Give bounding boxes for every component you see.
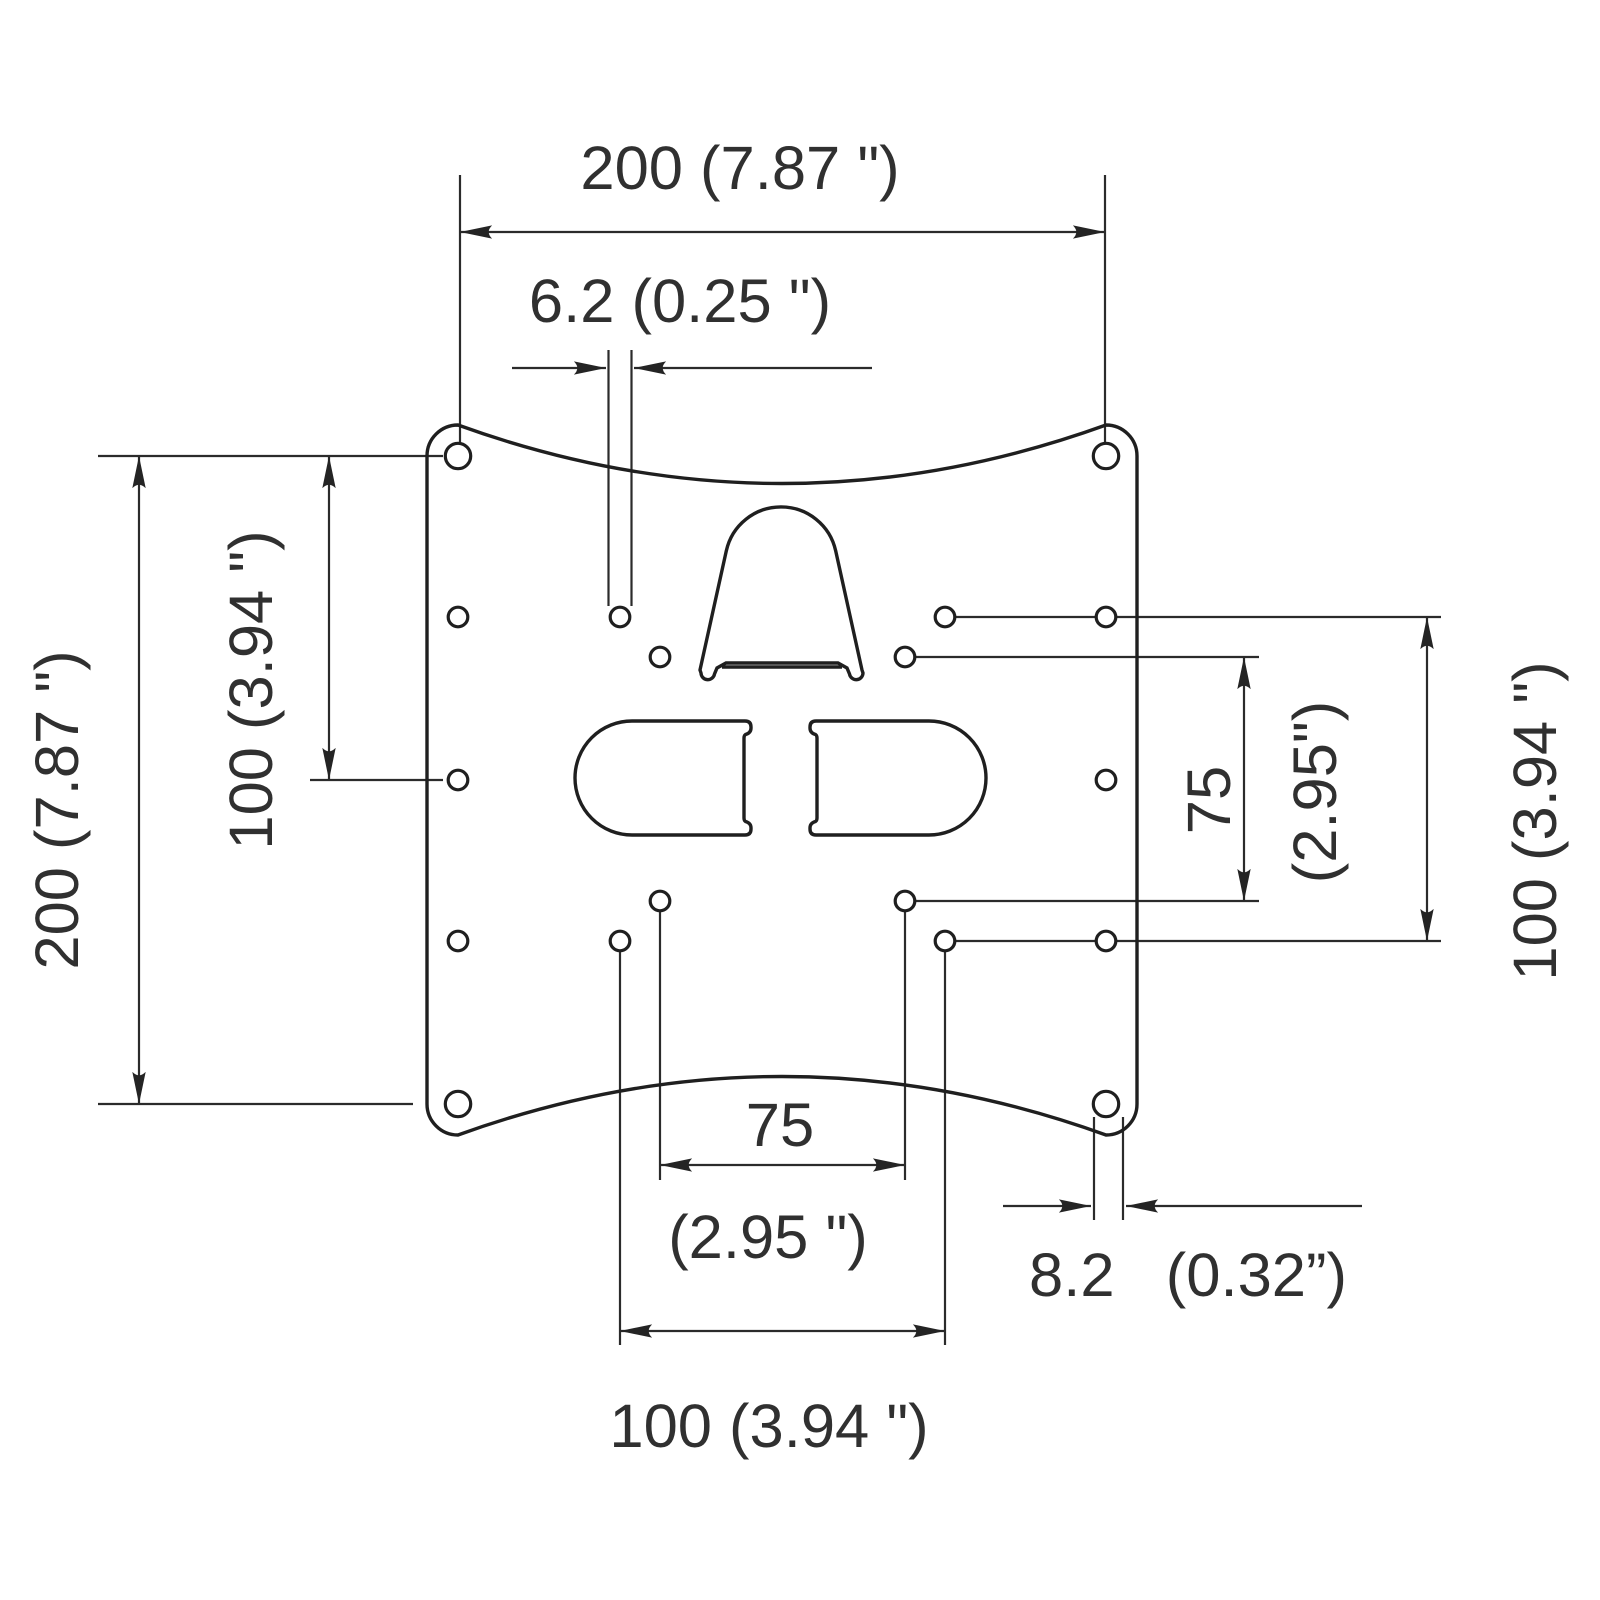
svg-text:75: 75 xyxy=(746,1091,814,1160)
svg-text:6.2 (0.25 "): 6.2 (0.25 ") xyxy=(529,267,831,336)
svg-text:100 (3.94 "): 100 (3.94 ") xyxy=(609,1392,928,1461)
svg-text:100 (3.94 "): 100 (3.94 ") xyxy=(1501,661,1570,980)
svg-text:8.2 (0.32”): 8.2 (0.32”) xyxy=(1029,1241,1347,1310)
svg-text:100 (3.94 "): 100 (3.94 ") xyxy=(217,530,286,849)
svg-text:(2.95"): (2.95") xyxy=(1281,701,1350,884)
svg-text:200 (7.87 "): 200 (7.87 ") xyxy=(580,134,899,203)
svg-text:(2.95 "): (2.95 ") xyxy=(668,1203,868,1272)
svg-text:75: 75 xyxy=(1175,766,1244,834)
svg-text:200 (7.87 "): 200 (7.87 ") xyxy=(23,650,92,969)
